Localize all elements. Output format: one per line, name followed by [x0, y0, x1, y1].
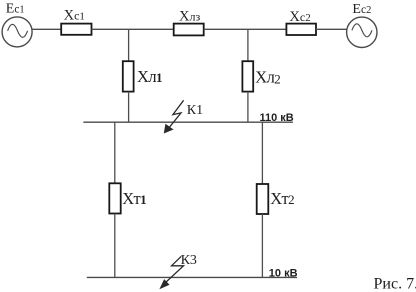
label Хл1 — [137, 67, 162, 86]
svg-text:Xc2: Xc2 — [289, 9, 310, 25]
svg-text:К3: К3 — [181, 253, 197, 268]
fault K1 — [164, 100, 183, 132]
wire Хлз to Xc2 with junction — [204, 28, 287, 30]
label Хлз — [179, 8, 200, 24]
fault K3 — [160, 256, 183, 288]
label K1 — [187, 103, 203, 118]
label K3 — [181, 253, 197, 268]
resistor Хл1 — [123, 61, 134, 91]
svg-text:Рис. 7.: Рис. 7. — [374, 276, 416, 292]
label Хт2 — [270, 189, 294, 208]
label Ec2 — [352, 2, 371, 17]
wire Хт1 branch lower — [114, 214, 116, 278]
wire Хл2 branch upper — [247, 29, 249, 61]
resistor Хт2 — [257, 184, 269, 214]
source Ec1 — [2, 17, 32, 47]
svg-text:Ec2: Ec2 — [352, 2, 371, 17]
wire Хл1 branch upper — [128, 29, 130, 61]
svg-text:Хт2: Хт2 — [270, 189, 294, 208]
svg-text:Хлз: Хлз — [179, 8, 200, 24]
svg-text:Хл1: Хл1 — [137, 67, 162, 86]
wire Xc2 to Ec2 — [316, 28, 347, 30]
bus 110 kV — [83, 121, 293, 123]
resistor Xc2 — [286, 24, 316, 35]
wire Хл1 branch lower — [128, 92, 130, 123]
resistor Хл2 — [242, 61, 253, 91]
caption Рис. 7. — [374, 276, 416, 292]
label Ec1 — [6, 1, 25, 16]
wire Хт1 branch upper — [114, 122, 116, 183]
label Xc1 — [64, 8, 85, 24]
svg-text:Хл2: Хл2 — [255, 67, 280, 86]
wire Хт2 branch upper — [261, 122, 263, 184]
label 10 кВ — [269, 267, 298, 279]
svg-text:К1: К1 — [187, 103, 203, 118]
svg-text:Хт1: Хт1 — [122, 189, 146, 208]
resistor Xc1 — [61, 24, 91, 35]
resistor Хт1 — [109, 183, 120, 213]
label 110 кВ — [260, 112, 294, 124]
svg-text:110 кВ: 110 кВ — [260, 112, 294, 124]
wire Ec1 to Xc1 — [32, 28, 62, 30]
bus 10 kV — [87, 276, 297, 278]
svg-text:10 кВ: 10 кВ — [269, 267, 298, 279]
label Хл2 — [255, 67, 280, 86]
resistor Хлз — [174, 24, 204, 36]
label Xc2 — [289, 9, 310, 25]
wire Хл2 branch lower — [247, 92, 249, 123]
svg-text:Xc1: Xc1 — [64, 8, 85, 24]
svg-text:Ec1: Ec1 — [6, 1, 25, 16]
label Хт1 — [122, 189, 146, 208]
source Ec2 — [347, 17, 377, 47]
wire Xc1 to Хлз with junction — [92, 28, 174, 30]
wire Хт2 branch lower — [261, 214, 263, 277]
